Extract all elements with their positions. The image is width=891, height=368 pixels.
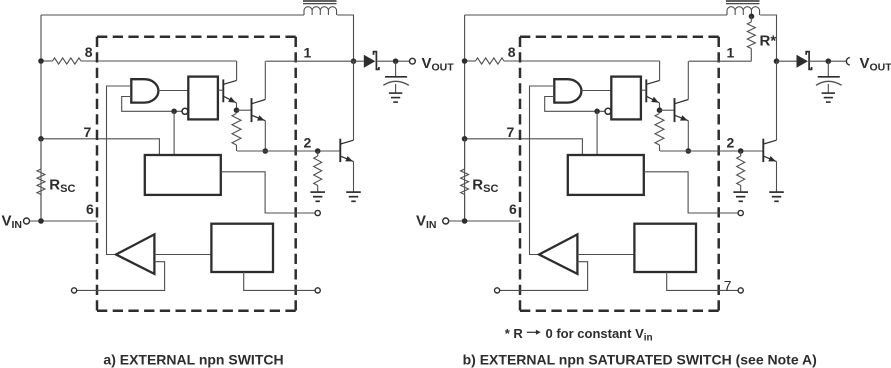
wire: comparator inverting input to pin 5 (a) (77, 262, 165, 291)
wire: oscillator to Ipk terminal (b) (644, 172, 738, 213)
node: switch node (b) (774, 58, 780, 64)
svg-text:1: 1 (304, 45, 312, 61)
capacitor COUT (a) (395, 61, 397, 77)
wire: AND output to latch (a) (158, 90, 188, 92)
svg-text:RSC: RSC (472, 177, 498, 196)
node: rail pin-7 junction (b) (462, 136, 468, 142)
wire: top rail to inductor (b) (465, 14, 727, 16)
svg-text:8: 8 (85, 44, 93, 60)
transistor Q3 base bar (a) (339, 139, 341, 162)
transistor Q3 emitter (b) (764, 156, 777, 161)
ground (below external resistor) (a) (310, 191, 325, 193)
comparator (a) (116, 234, 154, 274)
wire: comparator output to AND input (b) (530, 86, 555, 255)
wire: pin 8 net (a) (41, 60, 53, 62)
terminal comparator input pin 5 (a) (72, 288, 77, 293)
transistor Q1 collector (b) (647, 80, 660, 84)
wire: comparator output to AND input (a) (107, 86, 132, 255)
svg-text:VIN: VIN (2, 213, 23, 232)
latch block U-latch (a) (188, 77, 218, 120)
wire: pin 1 net (a) (266, 60, 354, 62)
node: pin-2 to external resistor junction (a) (315, 148, 321, 154)
wire: top rail to inductor (a) (41, 14, 304, 16)
inductor L (a) (304, 7, 337, 15)
inductor L (b) (727, 7, 760, 15)
wire: inductor to switch node (b) (760, 15, 776, 61)
node: VIN junction (b) (462, 218, 468, 224)
transistor Q1 base bar (a) (222, 79, 224, 102)
node: latch input junction (a) (171, 109, 177, 115)
wire: oscillator to Ipk terminal (a) (221, 172, 315, 213)
resistor base-drive (pin 8) (a) (53, 58, 82, 64)
terminal VIN (a) (24, 218, 30, 224)
wire: pin 1 net (b) (689, 60, 752, 62)
reference block (a) (211, 224, 273, 272)
wire: pin 6 net (b) (449, 220, 520, 222)
svg-text:0 for constant Vin: 0 for constant Vin (546, 326, 653, 344)
svg-text:7: 7 (724, 278, 732, 294)
resistor Q2 base-emitter (b) (655, 114, 664, 146)
node: VIN junction (a) (38, 218, 44, 224)
wire: pin 7 net (a) (41, 139, 159, 155)
wire: junction to Q2 base (a) (237, 109, 252, 111)
svg-text:RSC: RSC (49, 177, 75, 196)
wire: junction to oscillator top (b) (596, 111, 598, 155)
wire: comparator non-inverting input (b) (577, 254, 634, 256)
node: inductor tap for R* (749, 13, 755, 19)
ground (below external resistor) (b) (733, 191, 748, 193)
schottky diode D (b) (797, 55, 809, 68)
reference block (b) (634, 224, 696, 272)
wire: diode to output node (a) (376, 60, 409, 62)
wire: AND lower input from latch bubble net (b) (545, 97, 606, 112)
terminal Ipk sense pin (b) (738, 210, 743, 215)
node: Q1 emitter / Q2 base junction (a) (234, 107, 240, 113)
resistor Q2 base-emitter (a) (232, 114, 241, 146)
wire: comparator non-inverting input (a) (154, 254, 211, 256)
transistor Q2 emitter (a) (252, 115, 265, 120)
ground (Q3 emitter) (b) (769, 191, 784, 193)
svg-text:VOUT: VOUT (860, 55, 891, 74)
wire: input rail left vertical (a) (40, 15, 42, 221)
transistor Q1 emitter (b) (647, 96, 660, 103)
transistor Q1 emitter (a) (224, 96, 237, 103)
svg-text:7: 7 (84, 124, 92, 140)
resistor base-drive (pin 8) (b) (476, 58, 505, 64)
node: Q2 emitter on pin-2 net (a) (263, 148, 269, 154)
wire: reference block to timing terminal (a) (244, 272, 315, 290)
latch block U-latch (b) (611, 77, 641, 120)
inverting bubble on latch (a) (182, 108, 188, 114)
transistor Q3 collector (a) (341, 140, 354, 144)
oscillator block (b) (568, 155, 644, 195)
transistor Q1 collector (a) (224, 80, 237, 84)
wire: junction to oscillator top (a) (173, 111, 175, 155)
ground (Q3 emitter) (a) (346, 191, 361, 193)
wire: pin 2 net (b) (660, 150, 763, 152)
svg-text:a) EXTERNAL npn SWITCH: a) EXTERNAL npn SWITCH (103, 352, 283, 368)
svg-text:1: 1 (727, 45, 735, 61)
terminal comparator input pin 5 (b) (495, 288, 500, 293)
terminal timing capacitor pin (a) (315, 288, 320, 293)
schottky diode D (a) (364, 55, 376, 68)
svg-text:6: 6 (86, 201, 94, 217)
wire: junction to Q2 base (b) (660, 109, 675, 111)
terminal VOUT (b, half-open) (846, 58, 849, 65)
wire: reference block to timing terminal (b) (667, 272, 738, 290)
node: rail to pin-8 resistor junction (b) (462, 58, 468, 64)
svg-text:8: 8 (508, 44, 516, 60)
resistor RSC (b) (464, 139, 466, 169)
wire: pin 7 net (b) (465, 139, 583, 155)
svg-text:2: 2 (304, 135, 312, 151)
ground (output capacitor) (b) (822, 92, 835, 94)
ground (output capacitor) (a) (389, 92, 402, 94)
terminal timing capacitor pin (b) (738, 288, 743, 293)
transistor Q2 base bar (b) (674, 98, 676, 122)
AND gate U-and (a) (131, 79, 158, 102)
wire: latch output to Q1 base (a) (218, 89, 223, 91)
transistor Q2 emitter (b) (675, 115, 689, 120)
terminal VIN (b) (443, 218, 449, 224)
resistor RSC (a) (40, 139, 42, 169)
wire: pin 2 net (a) (237, 150, 340, 152)
node: latch input junction (b) (594, 109, 600, 115)
svg-text:2: 2 (727, 135, 735, 151)
IC boundary (dashed box) (a) (97, 35, 296, 38)
transistor Q2 collector (b) (675, 100, 689, 104)
resistor external base-emitter (a) (317, 151, 319, 156)
transistor Q3 base bar (b) (762, 139, 764, 162)
capacitor COUT (b) (827, 61, 829, 77)
svg-text:R*: R* (760, 33, 777, 50)
oscillator block (a) (145, 155, 221, 195)
AND gate U-and (b) (554, 79, 581, 102)
svg-text:VOUT: VOUT (422, 55, 455, 74)
node: Q1 emitter / Q2 base junction (b) (657, 107, 663, 113)
wire: latch output to Q1 base (b) (641, 89, 646, 91)
inverting bubble on latch (b) (605, 108, 611, 114)
wire: pin 8 net (b) (465, 60, 476, 62)
transistor Q1 base bar (b) (645, 79, 647, 102)
wire: AND lower input from latch bubble net (a) (122, 97, 183, 112)
node: switch node (a) (351, 58, 357, 64)
wire: switch node to diode (b) (777, 60, 797, 62)
wire: comparator inverting input to pin 5 (b) (500, 262, 588, 291)
resistor external base-emitter (b) (740, 151, 742, 156)
node: rail to pin-8 resistor junction (a) (38, 58, 44, 64)
comparator (b) (539, 234, 577, 274)
terminal Ipk sense pin (a) (315, 210, 320, 215)
wire: diode to output node (b) (809, 60, 847, 62)
svg-text:b) EXTERNAL npn SATURATED SWIT: b) EXTERNAL npn SATURATED SWITCH (see No… (463, 352, 817, 368)
node: pin-2 to external resistor junction (b) (738, 148, 744, 154)
transistor Q3 emitter (a) (341, 156, 354, 161)
transistor Q2 collector (a) (252, 100, 265, 104)
svg-text:VIN: VIN (416, 213, 437, 232)
wire: input rail left vertical (b) (464, 15, 466, 221)
transistor Q2 base bar (a) (251, 98, 253, 122)
wire: inductor to switch node (a) (337, 15, 353, 61)
resistor R* (750, 16, 752, 22)
node: output node (b) (826, 58, 832, 64)
transistor Q3 collector (b) (764, 140, 777, 144)
IC boundary (dashed box) (b) (520, 35, 719, 38)
node: output node (a) (393, 58, 399, 64)
wire: pin 6 net (a) (29, 220, 97, 222)
wire: switch node to diode (a) (354, 60, 364, 62)
wire: AND output to latch (b) (581, 90, 611, 92)
svg-text:7: 7 (507, 124, 515, 140)
svg-text:6: 6 (509, 201, 517, 217)
svg-text:* R: * R (505, 326, 524, 341)
node: rail pin-7 junction (a) (38, 136, 44, 142)
terminal VOUT (a) (410, 58, 416, 64)
node: Q2 emitter on pin-2 net (b) (686, 148, 692, 154)
